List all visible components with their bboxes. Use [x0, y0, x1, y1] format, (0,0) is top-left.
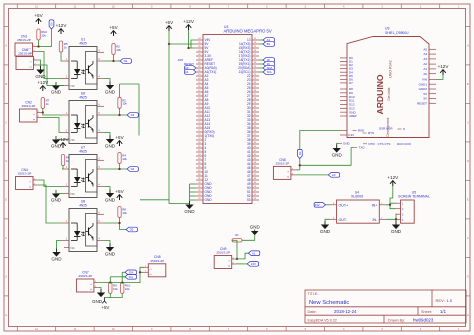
- svg-text:E: E: [467, 198, 469, 202]
- wire: [56, 139, 64, 141]
- net flag SCL: [125, 275, 136, 280]
- svg-text:SHIEL_D9900U: SHIEL_D9900U: [385, 31, 409, 35]
- svg-text:H: H: [467, 313, 469, 317]
- svg-text:+12V: +12V: [183, 19, 195, 24]
- power +5V (pull-ups): [102, 298, 106, 304]
- wire: [436, 75, 443, 79]
- ground (U7 right): [106, 190, 114, 198]
- svg-text:A1: A1: [185, 70, 189, 74]
- net flag CH2: [127, 113, 138, 118]
- net flag D0 (vertical): [49, 20, 54, 29]
- wire OUT- to GND: [325, 219, 330, 224]
- wire R5 to U1.1: [61, 52, 62, 61]
- wire pull-up to collector: [113, 55, 115, 62]
- svg-text:A1: A1: [252, 251, 256, 255]
- title block: [305, 290, 466, 323]
- wire U8.5 to flag: [104, 223, 126, 230]
- svg-text:A4: A4: [423, 52, 427, 56]
- svg-text:2501S-2P: 2501S-2P: [18, 172, 32, 176]
- svg-text:A05: A05: [178, 58, 184, 62]
- wire U8.2 to GND: [57, 241, 63, 253]
- svg-text:D4: D4: [131, 167, 135, 171]
- svg-text:10k: 10k: [122, 211, 127, 215]
- svg-text:+5V: +5V: [34, 13, 43, 18]
- svg-text:CTS CTS: CTS CTS: [378, 142, 391, 146]
- wire CN9.1 to flag A1: [236, 253, 248, 259]
- net flag 14: [263, 42, 274, 47]
- net flag (vertical, RXD net): [297, 149, 302, 158]
- IC U4 XL6009: [330, 190, 386, 223]
- wire: [119, 218, 121, 224]
- svg-text:GND1: GND1: [419, 82, 428, 86]
- svg-text:D: D: [467, 159, 469, 163]
- svg-text:5V: 5V: [423, 97, 427, 101]
- svg-text:H: H: [5, 313, 7, 317]
- ground (screw terminal): [392, 221, 400, 229]
- svg-text:B3: B3: [267, 42, 271, 46]
- net flag CH4: [126, 227, 137, 232]
- ground (CN6): [36, 66, 44, 74]
- svg-text:1k: 1k: [66, 159, 70, 163]
- wire: [259, 43, 263, 45]
- svg-text:SCL: SCL: [129, 276, 134, 279]
- wire: [259, 71, 263, 73]
- svg-text:Sheet:: Sheet:: [421, 310, 432, 314]
- ground (U6 left): [52, 136, 60, 144]
- wire: [38, 40, 40, 47]
- ground (XL6009): [321, 221, 329, 229]
- svg-text:1.0: 1.0: [447, 298, 453, 303]
- wire: [119, 164, 121, 170]
- wire: [259, 67, 263, 69]
- svg-text:OUT+: OUT+: [339, 203, 349, 207]
- svg-text:A0: A0: [423, 72, 427, 76]
- IC U3 ARDUINO MEGAPRO 5V: [196, 25, 272, 203]
- wire IN- net: [386, 214, 396, 219]
- wire: [326, 204, 331, 206]
- optocoupler U7 4N25: [62, 146, 104, 198]
- svg-text:SDA: SDA: [129, 271, 134, 274]
- svg-text:New Schematic: New Schematic: [309, 300, 349, 306]
- wire U7.5 to flag: [104, 168, 127, 170]
- resistor R6 1k: [61, 155, 64, 166]
- svg-text:DCD DCD: DCD DCD: [397, 142, 412, 146]
- wire CN8.1: [295, 169, 300, 171]
- svg-text:EasyEDA V5.9.22: EasyEDA V5.9.22: [308, 318, 337, 322]
- svg-text:GND: GND: [184, 209, 195, 214]
- svg-text:2501S-2P: 2501S-2P: [216, 251, 230, 255]
- connector CN1 2501S-2P: [15, 34, 37, 56]
- connector CN5 2501S-2P: [144, 255, 166, 277]
- svg-text:GND: GND: [250, 224, 261, 229]
- svg-text:DSR DSR: DSR DSR: [379, 126, 393, 130]
- svg-text:TITLE:: TITLE:: [308, 292, 319, 296]
- optocoupler U1 4N25: [62, 38, 104, 90]
- svg-text:2501S-2P: 2501S-2P: [79, 274, 93, 278]
- svg-text:DTR: DTR: [369, 142, 376, 146]
- svg-text:10k: 10k: [113, 287, 118, 291]
- wire R6 to U7.1: [62, 166, 63, 170]
- ground (U1 left): [52, 82, 60, 90]
- ground (U8 left): [52, 249, 60, 257]
- wire CN9.2 to flag 24V: [236, 263, 247, 265]
- net flag 18: [263, 58, 274, 63]
- wire: [259, 63, 263, 65]
- net flag CH3: [127, 167, 138, 172]
- svg-text:4N25: 4N25: [79, 203, 87, 207]
- svg-text:RTS: RTS: [368, 131, 374, 135]
- svg-text:4N25: 4N25: [79, 95, 87, 99]
- svg-text:10k: 10k: [122, 102, 127, 106]
- svg-text:+12V: +12V: [387, 175, 399, 180]
- svg-text:A5: A5: [423, 47, 427, 51]
- svg-text:D0: D0: [50, 22, 54, 26]
- svg-text:1k: 1k: [64, 45, 68, 49]
- wire U6.4 to GND: [104, 133, 110, 140]
- svg-text:E: E: [5, 198, 7, 202]
- wire junction down: [235, 240, 238, 259]
- resistor R2 10k: [112, 44, 115, 55]
- svg-text:AREF: AREF: [349, 114, 357, 118]
- svg-text:GND: GND: [332, 153, 343, 158]
- wire CN2.2 to U6.2: [41, 118, 62, 133]
- svg-text:C: C: [467, 121, 469, 125]
- power +5V (U7 pull-up): [117, 141, 123, 146]
- svg-text:GND: GND: [92, 299, 103, 304]
- wire GND pins: [190, 183, 197, 185]
- svg-text:GND: GND: [51, 256, 62, 261]
- svg-text:10k: 10k: [122, 157, 127, 161]
- IC U9 ARDUINO shield: [339, 27, 437, 150]
- resistor R7 1k: [41, 98, 44, 109]
- wire TXD: [300, 148, 353, 166]
- svg-text:2: 2: [29, 186, 32, 188]
- svg-text:4N25: 4N25: [79, 41, 87, 45]
- svg-text:+5V: +5V: [101, 305, 109, 310]
- power +12V (U7 input): [60, 143, 66, 148]
- svg-text:+12V: +12V: [37, 80, 49, 85]
- svg-text:2501S-2P: 2501S-2P: [18, 52, 32, 56]
- wire: [51, 29, 53, 47]
- wire RXD: [300, 131, 340, 170]
- wire long rail: [169, 44, 190, 204]
- resistor RN2 10k: [37, 29, 40, 40]
- wire resistor bottoms: [110, 293, 122, 297]
- svg-text:IN+: IN+: [372, 203, 378, 207]
- svg-text:+12V: +12V: [58, 137, 70, 142]
- ground (U7 left): [52, 190, 60, 198]
- net flag 13: [263, 38, 274, 43]
- svg-text:2018-12-24: 2018-12-24: [334, 309, 357, 314]
- wire CN6.2: [38, 65, 64, 86]
- resistor R10 10k: [121, 282, 124, 293]
- svg-text:GND2: GND2: [419, 87, 428, 91]
- svg-text:ARDUINO: ARDUINO: [375, 74, 385, 114]
- power +12V (U6 input): [40, 86, 46, 91]
- resistor R5 1k: [59, 41, 62, 52]
- net flag 19: [263, 62, 274, 67]
- svg-text:D: D: [5, 159, 7, 163]
- wire +5V rail branch: [120, 83, 140, 85]
- svg-text:2501S-2P: 2501S-2P: [17, 38, 31, 42]
- wire: [191, 40, 196, 48]
- svg-text:ARDUINO MEGAPRO 5V: ARDUINO MEGAPRO 5V: [224, 29, 272, 34]
- svg-text:GND: GND: [343, 141, 351, 145]
- svg-text:hw09d023: hw09d023: [413, 317, 434, 322]
- resistor R2 10k: [118, 97, 121, 108]
- svg-text:GND: GND: [51, 198, 62, 203]
- net flag SCL: [263, 70, 274, 75]
- wire CN4.2 to U8.1: [37, 185, 62, 223]
- net flag A0: [185, 66, 196, 71]
- svg-text:RX: RX: [298, 151, 302, 155]
- wire CN4.1 to U7.2: [37, 180, 62, 187]
- svg-text:UNO R342: UNO R342: [389, 60, 393, 78]
- power +12V (shield VIN): [440, 70, 446, 75]
- wire U1.4 to GND: [104, 79, 110, 86]
- connector CN9 2501S-2P: [214, 247, 236, 269]
- net flag SDA: [125, 270, 136, 275]
- power +12V (U3): [186, 25, 192, 30]
- svg-text:GND: GND: [51, 144, 62, 149]
- wire CN8.2 to flag: [295, 174, 328, 176]
- wire R3 left: [232, 239, 237, 241]
- svg-text:A3: A3: [423, 57, 427, 61]
- svg-text:24V: 24V: [251, 262, 256, 266]
- svg-text:GND: GND: [51, 90, 62, 95]
- resistor R8 10k: [118, 207, 121, 218]
- svg-text:Date:: Date:: [308, 310, 317, 314]
- svg-text:2501S-2P: 2501S-2P: [150, 259, 164, 263]
- connector CN7 2501S-2P: [76, 270, 98, 292]
- svg-text:+5V: +5V: [115, 189, 124, 194]
- net flag SDA: [263, 66, 274, 71]
- svg-text:S: S: [403, 127, 405, 131]
- svg-text:24V: 24V: [315, 203, 320, 207]
- svg-text:D2: D2: [124, 59, 128, 63]
- power +5V (CN1 pull-up): [36, 19, 42, 24]
- svg-text:A: A: [5, 44, 7, 48]
- svg-text:D7: D7: [349, 81, 353, 85]
- svg-text:+5V: +5V: [165, 20, 174, 25]
- resistor R9 10k: [109, 282, 112, 293]
- svg-text:GND: GND: [35, 74, 46, 79]
- wire U6.5 to flag: [104, 114, 127, 116]
- svg-text:GND: GND: [105, 144, 116, 149]
- svg-text:A: A: [467, 44, 469, 48]
- svg-text:OUT-: OUT-: [339, 218, 348, 222]
- svg-text:A2: A2: [423, 62, 427, 66]
- wire rail 2: [138, 84, 140, 136]
- svg-text:VIN: VIN: [422, 78, 427, 82]
- svg-text:Drawn By:: Drawn By:: [388, 318, 405, 322]
- wire U8.4 to GND: [104, 241, 110, 248]
- svg-text:G: G: [5, 275, 7, 279]
- svg-text:10k: 10k: [116, 48, 121, 52]
- wire: [189, 30, 197, 48]
- ground (U6 right): [106, 136, 114, 144]
- svg-text:RXD: RXD: [358, 129, 365, 133]
- svg-text:1: 1: [29, 47, 32, 49]
- svg-text:+12V: +12V: [56, 23, 68, 28]
- svg-text:GND: GND: [105, 90, 116, 95]
- wire IN+ net: [386, 203, 396, 205]
- svg-text:GND: GND: [105, 251, 116, 256]
- wire: [337, 143, 339, 148]
- wire CN2.1: [41, 112, 43, 114]
- wire CN1.1 net: [37, 46, 52, 48]
- svg-text:A1: A1: [423, 67, 427, 71]
- svg-text:+12V: +12V: [438, 64, 450, 69]
- connector CN4 2501S-2P: [16, 168, 38, 190]
- svg-text:A3: A3: [332, 173, 336, 177]
- optocoupler U8 4N25: [62, 200, 104, 252]
- svg-text:TXD: TXD: [359, 146, 366, 150]
- wire flags: [122, 271, 125, 273]
- power +12V (U1 input): [58, 29, 64, 34]
- wire rail branch: [140, 199, 169, 201]
- svg-text:D5: D5: [130, 228, 134, 232]
- svg-text:SCL: SCL: [267, 70, 273, 74]
- svg-text:XL6009: XL6009: [351, 195, 363, 199]
- net flag A3: [328, 173, 339, 178]
- connector CN2 2501S-2P: [20, 100, 42, 122]
- ground (U1 right): [106, 82, 114, 90]
- wire R3 to GND: [242, 235, 255, 240]
- optocoupler U6 4N25: [62, 92, 104, 144]
- svg-text:GND: GND: [105, 198, 116, 203]
- junction: [37, 45, 39, 47]
- svg-text:RESET: RESET: [417, 101, 427, 105]
- svg-text:GND: GND: [320, 229, 331, 234]
- svg-text:1: 1: [29, 181, 32, 183]
- net flag A1: [185, 70, 196, 75]
- wire: [259, 39, 263, 41]
- svg-text:+5V: +5V: [109, 25, 118, 30]
- wire CN5.2: [140, 271, 144, 273]
- svg-text:REV:: REV:: [436, 298, 445, 303]
- wire U1.5 out: [104, 60, 120, 62]
- resistor R3: [232, 239, 242, 242]
- net flag 24V: [247, 262, 258, 267]
- resistor R4 10k: [118, 153, 121, 164]
- svg-text:2501S-2P: 2501S-2P: [276, 161, 290, 165]
- svg-text:5V: 5V: [423, 92, 427, 96]
- svg-text:SCREW TERMINAL: SCREW TERMINAL: [398, 195, 430, 199]
- wire: [169, 31, 196, 44]
- connector U5 SCREW TERMINAL: [396, 190, 430, 223]
- svg-text:2501S-2P: 2501S-2P: [22, 104, 36, 108]
- svg-text:1/1: 1/1: [440, 309, 447, 314]
- svg-text:1k: 1k: [46, 102, 50, 106]
- svg-text:10k: 10k: [41, 33, 46, 37]
- wire U7.4 to GND: [104, 187, 110, 194]
- power +12V (XL6009 in): [390, 181, 396, 186]
- ground (CN7): [97, 289, 105, 297]
- svg-text:IN-: IN-: [373, 218, 379, 222]
- svg-text:B: B: [5, 82, 7, 86]
- svg-text:4N25: 4N25: [79, 149, 87, 153]
- svg-text:+5V: +5V: [115, 135, 124, 140]
- connector CN8 2501S-2P: [273, 158, 295, 180]
- wire R7 to U6.1: [43, 109, 62, 116]
- svg-text:53: 53: [247, 198, 251, 202]
- svg-text:B: B: [467, 82, 469, 86]
- svg-text:3.3V: 3.3V: [348, 133, 354, 137]
- net flag 24V (XL6009 out): [314, 203, 325, 208]
- svg-text:GND: GND: [391, 229, 402, 234]
- wire: [56, 193, 64, 195]
- wire CN7.2: [98, 288, 101, 293]
- svg-text:GND: GND: [205, 198, 213, 202]
- svg-text:Diecimila: Diecimila: [387, 87, 391, 100]
- ground (U8 right): [106, 244, 114, 252]
- wire CN1.2 to U1.2: [37, 52, 62, 79]
- svg-text:C: C: [5, 121, 7, 125]
- net flag A1: [248, 251, 259, 256]
- ground (U3): [185, 201, 193, 209]
- wire CN6.1 to GND: [38, 60, 41, 70]
- wire: [119, 108, 121, 115]
- connector CN6 2501S-2P: [16, 48, 38, 70]
- wire +12V down: [390, 186, 393, 203]
- wire CN7.1: [98, 267, 144, 282]
- svg-text:G: G: [467, 275, 469, 279]
- wire: [56, 85, 64, 87]
- power +5V (U8 pull-up): [117, 195, 123, 200]
- net flag CH1: [120, 59, 131, 64]
- wire: [259, 59, 263, 61]
- svg-text:10k: 10k: [125, 287, 130, 291]
- power +5V (U3): [166, 26, 172, 31]
- svg-text:D3: D3: [131, 113, 135, 117]
- power +5V (U1 pull-up): [111, 31, 117, 36]
